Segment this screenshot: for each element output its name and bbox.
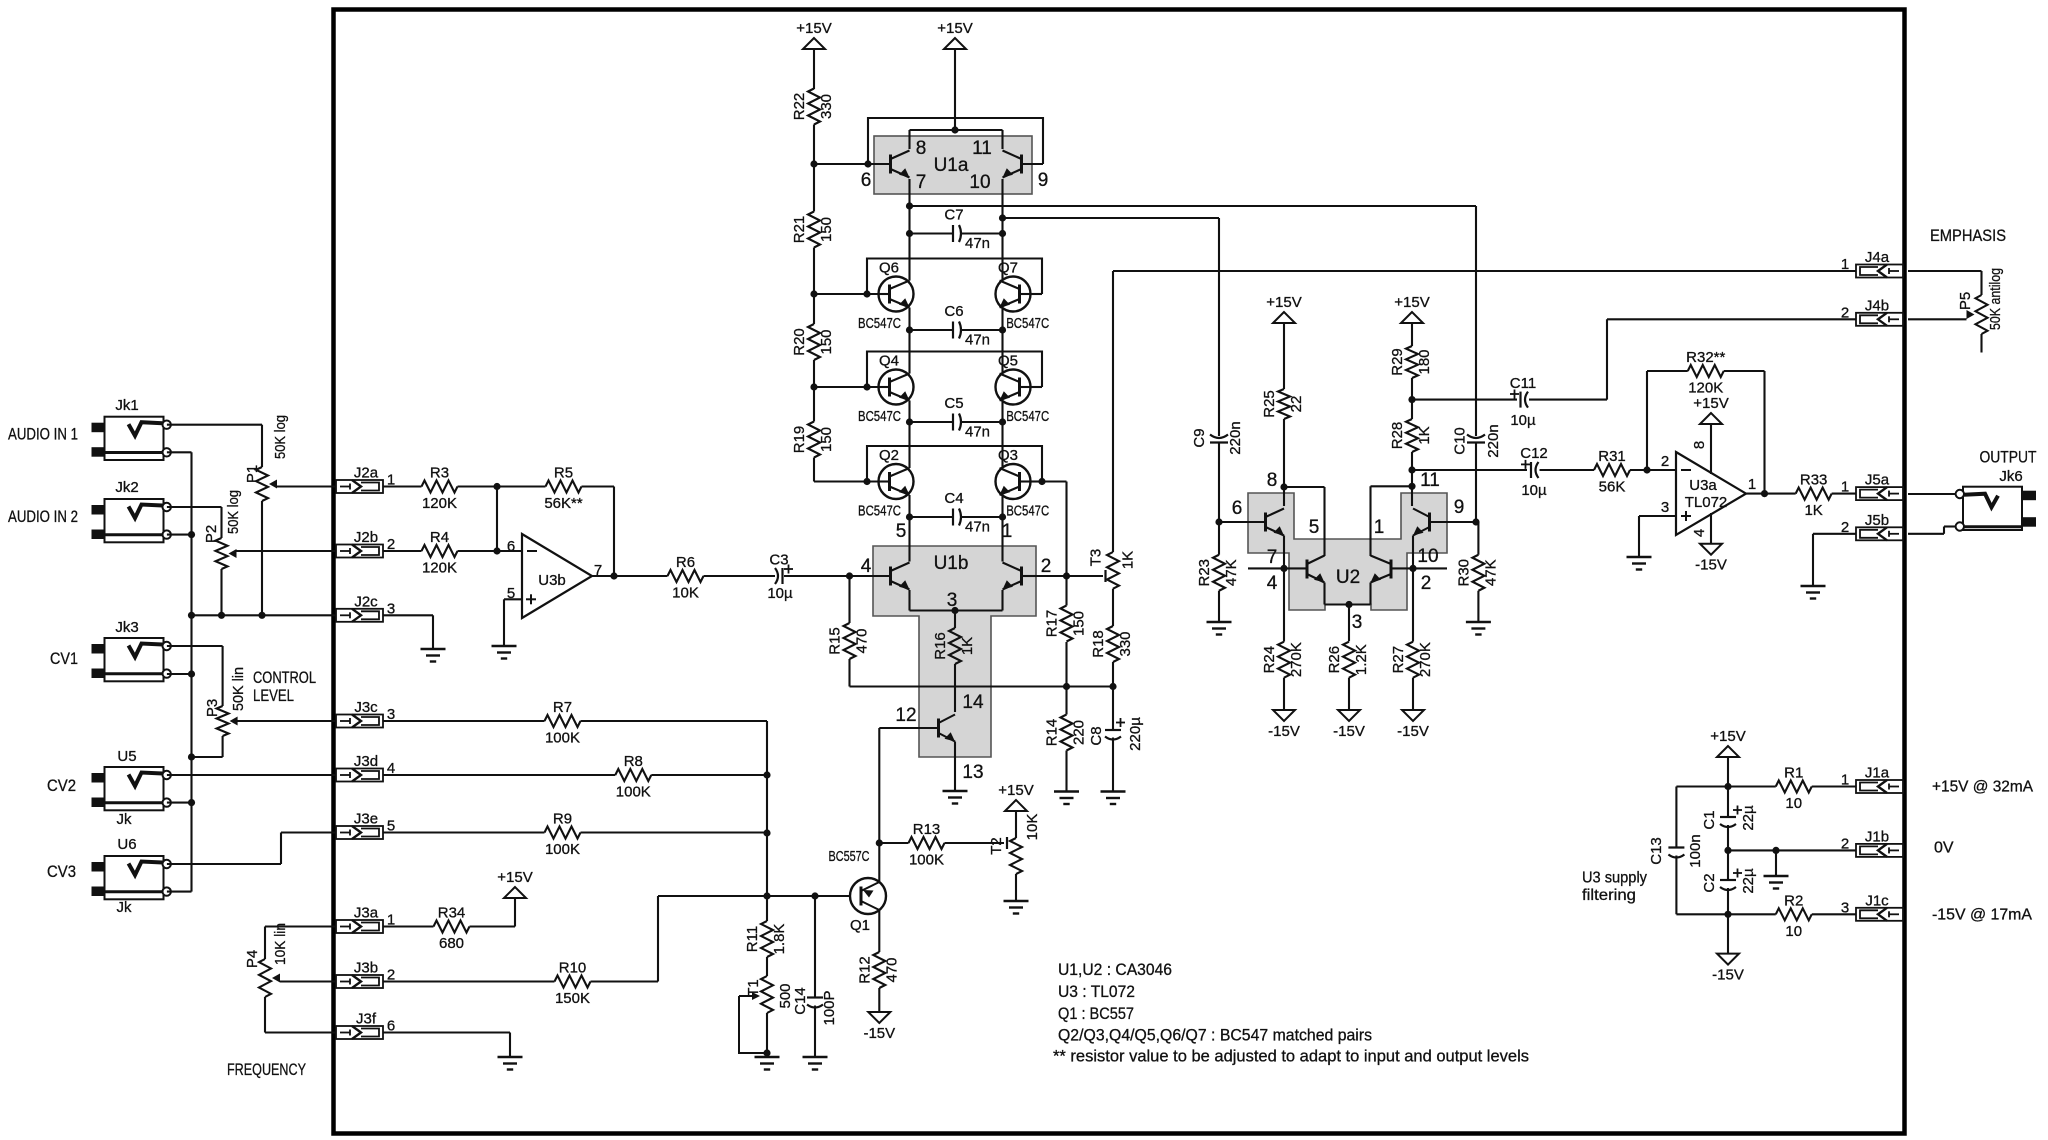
junction Q6 base (863, 290, 870, 297)
-15V supply (R12) (863, 1012, 895, 1042)
svg-text:R12: R12 (856, 956, 873, 984)
svg-text:BC557C: BC557C (829, 848, 870, 865)
wire bus to J2c (192, 614, 337, 616)
svg-text:470: 470 (883, 957, 900, 982)
wire R2 to J1c (1812, 913, 1856, 915)
svg-text:U3b: U3b (538, 572, 566, 589)
svg-text:1.8K: 1.8K (771, 924, 788, 955)
svg-text:100n: 100n (1687, 834, 1704, 867)
svg-text:BC547C: BC547C (1006, 315, 1049, 332)
svg-text:10: 10 (1785, 923, 1802, 940)
svg-text:47K: 47K (1223, 559, 1240, 586)
wire C13 top (1675, 787, 1677, 848)
svg-text:4: 4 (1267, 573, 1278, 594)
svg-text:U1a: U1a (934, 155, 969, 176)
svg-text:AUDIO IN 1: AUDIO IN 1 (8, 425, 78, 444)
svg-text:J1a: J1a (1865, 765, 1890, 782)
wire output to R33 (1746, 493, 1796, 495)
wire pin 9 to node (1430, 521, 1477, 523)
wire +15V pin 8 (1710, 424, 1712, 474)
-15V supply (U3a) (1695, 544, 1727, 574)
svg-text:R28: R28 (1389, 422, 1406, 450)
IC U1a block (874, 136, 1032, 194)
resistor R9 (545, 811, 581, 859)
wire J3d to R8 (383, 774, 615, 776)
svg-text:Q6: Q6 (879, 260, 899, 277)
wire R7 bus vertical (766, 721, 768, 921)
wire base loop Q6/Q7 (867, 259, 1042, 295)
wire C9 down (1218, 443, 1220, 522)
-15V supply (R26) (1333, 710, 1365, 740)
svg-text:10µ: 10µ (767, 585, 793, 602)
resistor R7 (545, 699, 581, 747)
ground R30 (1466, 622, 1491, 635)
svg-text:P5: P5 (1957, 292, 1974, 310)
wire C1 to 0V (1727, 825, 1729, 850)
svg-text:R32**: R32** (1686, 349, 1725, 366)
wire J3e to R9 (383, 831, 545, 833)
resistor R20 (791, 324, 835, 360)
wire Q6-Q4 (908, 308, 910, 374)
svg-text:BC547C: BC547C (858, 503, 901, 520)
wire R26 down (1348, 678, 1350, 710)
svg-text:C4: C4 (944, 490, 963, 507)
+15V supply (U1a) (937, 20, 972, 49)
junction R8 (763, 771, 770, 778)
wire pin8 to pin5 loop (1284, 486, 1325, 488)
wire node down (496, 487, 498, 552)
wire to R32 (1647, 370, 1688, 372)
svg-text:56K: 56K (1599, 479, 1626, 496)
svg-text:R15: R15 (827, 627, 844, 655)
wire to ground (503, 599, 505, 645)
svg-text:10µ: 10µ (1521, 482, 1547, 499)
svg-text:1: 1 (1748, 476, 1756, 493)
svg-text:CV2: CV2 (47, 776, 76, 795)
wire P3 wiper to J3c (237, 720, 336, 722)
transistor Q4 (879, 370, 914, 405)
wire +15V to R29 (1411, 323, 1413, 346)
svg-text:47n: 47n (965, 424, 990, 441)
svg-text:Q3: Q3 (998, 447, 1018, 464)
svg-text:10: 10 (1417, 546, 1438, 567)
wire P3 bottom down (222, 736, 224, 757)
wire to R13 (879, 842, 908, 844)
svg-text:U5: U5 (117, 748, 136, 765)
svg-text:P2: P2 (203, 525, 220, 543)
op-amp U3b (522, 534, 592, 618)
resistor R23 (1196, 555, 1240, 591)
wire loop to Q7 base (1031, 293, 1043, 295)
junction (188, 612, 195, 619)
connector J2a (336, 465, 395, 494)
svg-text:50K log: 50K log (272, 415, 289, 459)
svg-text:2: 2 (1041, 556, 1052, 577)
svg-text:J3b: J3b (354, 960, 378, 977)
svg-text:R5: R5 (554, 465, 573, 482)
svg-text:J5a: J5a (1865, 472, 1890, 489)
wire up (280, 833, 282, 865)
junction C7 right (999, 230, 1006, 237)
wire U6 sleeve to bus (167, 891, 192, 893)
svg-text:U3a: U3a (1689, 477, 1717, 494)
wire pin 8 (908, 130, 910, 149)
junction feedback (1643, 466, 1650, 473)
svg-text:14: 14 (962, 692, 984, 713)
ground U3b non-inverting input (492, 646, 517, 659)
junction pin 11 (1408, 483, 1415, 490)
junction pin 8 (1280, 483, 1287, 490)
wire to Q1 base (658, 895, 850, 897)
wire pin12 to Q1 (878, 728, 880, 882)
resistor R1 (1776, 765, 1812, 813)
svg-text:AUDIO IN 2: AUDIO IN 2 (8, 507, 78, 526)
svg-text:56K**: 56K** (544, 495, 583, 512)
svg-text:-15V: -15V (1695, 557, 1727, 574)
IC U1b block (873, 546, 1036, 757)
junction pin2/R17 (1063, 572, 1070, 579)
svg-text:C13: C13 (1648, 837, 1665, 865)
svg-text:1: 1 (1841, 479, 1849, 496)
resistor R6 (668, 554, 704, 602)
wire 0V to J1b (1728, 849, 1856, 851)
wire R33 to J5a (1832, 493, 1856, 495)
svg-text:-15V: -15V (1712, 967, 1744, 984)
wire R14 to ground (1065, 751, 1067, 791)
resistor R34 (434, 905, 470, 953)
svg-text:Q7: Q7 (998, 260, 1018, 277)
wire C3 to U1b pin 4 (784, 575, 873, 577)
svg-text:R4: R4 (430, 529, 449, 546)
wire R8 to bus (651, 774, 767, 776)
transistor U1a left half (891, 151, 910, 178)
svg-text:J2b: J2b (354, 529, 378, 546)
capacitor C13 (1648, 834, 1704, 867)
wire R16 to Q14 collector (954, 664, 956, 712)
capacitor C9 (1191, 421, 1244, 454)
svg-text:+15V: +15V (937, 20, 972, 37)
svg-text:22: 22 (1288, 396, 1305, 413)
svg-text:1: 1 (1002, 521, 1013, 542)
junction line to C10 (906, 202, 913, 209)
wire C2 down (1727, 888, 1729, 914)
svg-text:J5b: J5b (1865, 512, 1889, 529)
junction pin 4 node (846, 572, 853, 579)
-15V supply (R27) (1397, 710, 1429, 740)
IC U2 block (1248, 493, 1447, 610)
svg-text:R33: R33 (1800, 472, 1828, 489)
ground J5b (1801, 586, 1826, 599)
svg-text:R20: R20 (791, 328, 808, 356)
svg-text:R29: R29 (1389, 348, 1406, 376)
wire to J3f (265, 1031, 336, 1033)
svg-text:7: 7 (1267, 547, 1278, 568)
resistor R5 (544, 465, 583, 513)
svg-text:100K: 100K (545, 730, 580, 747)
wire C5 right (961, 421, 1003, 423)
svg-text:120K: 120K (1688, 380, 1723, 397)
transistor U2 inner-left (pin 5) (1307, 556, 1325, 583)
wire C12 to R31 (1540, 469, 1595, 471)
wire down to P4 top (264, 927, 266, 960)
svg-text:T2: T2 (988, 837, 1005, 855)
junction Q2 base (863, 478, 870, 485)
wire J2a to R3 (383, 485, 422, 487)
wire C7 right (961, 232, 1003, 234)
wire pin 4 into U1b (873, 575, 891, 577)
wire pin 2 stub (1022, 575, 1037, 577)
wire R34 right (470, 925, 516, 927)
svg-text:470: 470 (854, 628, 871, 653)
transistor Q5 (996, 370, 1031, 405)
jack Jk1 (92, 417, 171, 460)
wire C13 bottom (1675, 856, 1677, 915)
wire pin 11 (1001, 130, 1003, 149)
wire pin 4 down (1710, 513, 1712, 544)
wire to C9 (1003, 217, 1220, 219)
jack Jk2 (92, 499, 171, 542)
transistor U1a right half (1003, 151, 1022, 178)
junction R3/R5 (493, 483, 500, 490)
junction (188, 753, 195, 760)
junction (906, 326, 913, 333)
svg-text:Q2/Q3,Q4/Q5,Q6/Q7 : BC547 matc: Q2/Q3,Q4/Q5,Q6/Q7 : BC547 matched pairs (1058, 1027, 1372, 1045)
wire +15V down (1727, 757, 1729, 787)
jack Jk6 (1956, 487, 2036, 531)
junction pin6 tap (810, 160, 817, 167)
wire down to C9 (1218, 218, 1220, 436)
svg-text:6: 6 (507, 538, 515, 555)
svg-text:C2: C2 (1701, 873, 1718, 892)
svg-text:R30: R30 (1455, 559, 1472, 587)
svg-text:330: 330 (818, 94, 835, 119)
svg-text:47n: 47n (965, 235, 990, 252)
transistor U1b left half (891, 563, 910, 590)
wire P5 top (1980, 271, 1982, 295)
-15V supply (PSU) (1712, 954, 1744, 984)
resistor R29 (1389, 346, 1433, 378)
svg-text:T3: T3 (1088, 549, 1105, 567)
svg-text:-15V: -15V (1268, 723, 1300, 740)
svg-text:150: 150 (818, 217, 835, 242)
capacitor C2 (1701, 868, 1757, 894)
wire R1 to J1a (1812, 785, 1856, 787)
wire R10 right (591, 980, 659, 982)
wire emitters join (910, 609, 1003, 611)
wire Jk3 sleeve to bus (167, 673, 192, 675)
wire Q3 base stub (1031, 480, 1043, 482)
wire R18 to rail (1112, 662, 1114, 687)
ground pin 13 (943, 791, 968, 804)
connector J5a (1841, 472, 1903, 501)
svg-text:J3e: J3e (354, 811, 378, 828)
svg-text:3: 3 (1352, 612, 1363, 633)
wire J2b to R4 (383, 550, 422, 552)
junction Jk3 sleeve (188, 670, 195, 677)
resistor R4 (422, 529, 458, 577)
ground C14 (803, 1057, 828, 1070)
wire to J3e (281, 831, 336, 833)
junction +15V node (1724, 783, 1731, 790)
svg-text:2: 2 (1841, 519, 1849, 536)
svg-text:47n: 47n (965, 332, 990, 349)
resistor R10 (555, 960, 591, 1008)
wire P4 wiper to J3b (280, 980, 336, 982)
svg-text:R7: R7 (553, 699, 572, 716)
wire -15V down (1727, 914, 1729, 953)
svg-text:120K: 120K (422, 560, 457, 577)
resistor R21 (791, 212, 835, 248)
svg-text:4: 4 (861, 556, 872, 577)
svg-text:R23: R23 (1196, 559, 1213, 587)
wire R5 to output node (613, 487, 615, 577)
wire node to R2 (1676, 913, 1775, 915)
wire to R24 (1283, 568, 1285, 641)
svg-text:J2c: J2c (354, 593, 378, 610)
svg-text:10: 10 (969, 172, 990, 193)
resistor R28 (1389, 419, 1433, 452)
svg-text:2: 2 (1661, 453, 1669, 470)
wire up to J4b level (1606, 319, 1608, 399)
wire to C5 (910, 421, 954, 423)
junction Q4 row tap (810, 383, 817, 390)
wire pin 5 down (1323, 487, 1325, 556)
wire R4 to op-amp (458, 550, 523, 552)
ground R23 (1207, 622, 1232, 635)
svg-text:+15V: +15V (796, 20, 831, 37)
transistor U2 inner-right (pin 1) (1371, 556, 1392, 583)
ground 0V (1764, 876, 1789, 889)
svg-text:C1: C1 (1701, 810, 1718, 829)
+15V supply (T2) (998, 782, 1033, 811)
resistor R19 (791, 422, 835, 458)
wire Jk1 sleeve (167, 451, 192, 453)
wire P3 bottom to bus (192, 756, 223, 758)
wire J5b to ground (1812, 534, 1814, 585)
wire C11 right (1529, 399, 1607, 401)
svg-text:U3 : TL072: U3 : TL072 (1058, 983, 1135, 1001)
svg-text:R27: R27 (1390, 646, 1407, 674)
svg-text:C10: C10 (1452, 427, 1469, 455)
wire R32 right (1724, 370, 1765, 372)
svg-text:C12: C12 (1520, 445, 1548, 462)
connector J3e (336, 811, 395, 840)
junction (999, 326, 1006, 333)
wire C8 to ground (1112, 738, 1114, 791)
wire J5b out (1908, 533, 1944, 535)
svg-text:13: 13 (962, 762, 983, 783)
svg-text:+15V: +15V (1693, 395, 1728, 412)
wire U1a base loop pin6-pin9 (868, 118, 1043, 164)
wire rail to R14 (1065, 687, 1067, 715)
connector J3a (336, 905, 395, 934)
trimmer T3 (1088, 549, 1137, 589)
transistor Q7 (996, 277, 1031, 312)
junction pins 7/4 (1280, 565, 1287, 572)
capacitor C8 (1088, 717, 1144, 751)
junction line to C9 (999, 214, 1006, 221)
potentiometer P2 (203, 490, 242, 569)
svg-text:1K: 1K (1416, 426, 1433, 444)
svg-text:J3d: J3d (354, 753, 378, 770)
svg-text:3: 3 (1661, 499, 1669, 516)
wire bottom rail (850, 685, 1114, 687)
svg-text:R3: R3 (430, 465, 449, 482)
wire R27 down (1412, 678, 1414, 710)
svg-text:270K: 270K (1288, 642, 1305, 677)
wire P1 bottom to bus (261, 501, 263, 615)
junction pins 10/2 (1409, 565, 1416, 572)
junction C11 tap (1408, 396, 1415, 403)
junction R18/C8 (1109, 683, 1116, 690)
wire +15V to R25 (1283, 323, 1285, 389)
svg-text:+15V @ 32mA: +15V @ 32mA (1932, 779, 2033, 796)
junction R17/R14 (1063, 683, 1070, 690)
transistor U2 outer-right (pins 11/9/10) (1413, 509, 1430, 536)
svg-text:U1,U2 : CA3046: U1,U2 : CA3046 (1058, 961, 1172, 979)
wire to R27 (1412, 568, 1414, 641)
svg-text:C11: C11 (1510, 375, 1536, 392)
svg-text:R16: R16 (932, 632, 949, 660)
svg-text:9: 9 (1038, 170, 1049, 191)
svg-text:R8: R8 (624, 753, 643, 770)
svg-text:10: 10 (1785, 795, 1802, 812)
connector J3d (336, 753, 395, 782)
svg-text:22µ: 22µ (1740, 868, 1757, 894)
svg-text:47n: 47n (965, 519, 990, 536)
wire Q7-Q5 (1001, 308, 1003, 374)
wire J3b to R10 (383, 980, 555, 982)
svg-text:TL072: TL072 (1685, 494, 1728, 511)
wire down to C10 (1475, 206, 1477, 436)
wire J3a to R34 (383, 925, 434, 927)
capacitor C14 (792, 987, 838, 1025)
svg-text:R18: R18 (1090, 630, 1107, 658)
wire Q1 collector to R12 (878, 910, 880, 952)
wire R28 down to pin 11 (1411, 452, 1413, 506)
wire C10 down (1475, 443, 1477, 522)
svg-text:C3: C3 (769, 552, 788, 569)
resistor R26 (1326, 642, 1370, 678)
wire feedback down (1763, 371, 1765, 494)
wire Q4-Q2 (908, 401, 910, 469)
wire J3c to R7 (383, 720, 545, 722)
resistor R13 (909, 821, 945, 869)
svg-text:C9: C9 (1191, 428, 1208, 447)
junction R9 (763, 829, 770, 836)
wire to ground (1775, 850, 1777, 875)
wire pin3 to ground (1638, 516, 1640, 556)
jack U5 (92, 767, 171, 810)
ground T1 (755, 1057, 780, 1070)
svg-text:R21: R21 (791, 216, 808, 244)
svg-text:7: 7 (916, 172, 927, 193)
wire to C2 (1727, 850, 1729, 880)
svg-text:50K log: 50K log (225, 490, 242, 534)
wire R17 to rail (1065, 642, 1067, 687)
svg-text:J4b: J4b (1865, 297, 1889, 314)
svg-text:R24: R24 (1261, 646, 1278, 674)
transistor U2 outer-left (pins 8/6/7) (1266, 509, 1285, 536)
wire to C7 (910, 232, 954, 234)
wire P5 bottom stub (1980, 334, 1982, 353)
svg-text:150: 150 (1071, 611, 1088, 636)
svg-text:+15V: +15V (998, 782, 1033, 799)
wire node3 to R16 (954, 611, 956, 629)
wire P1 wiper to J2a (276, 485, 336, 487)
svg-text:4: 4 (1691, 529, 1708, 537)
svg-text:C8: C8 (1088, 726, 1105, 745)
